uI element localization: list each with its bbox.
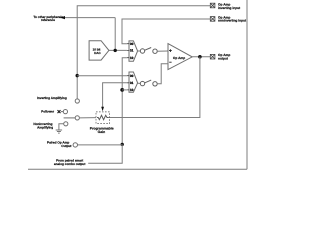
svg-text:From paired smart: From paired smart — [56, 159, 83, 163]
contact: Inverting Amplifying — [75, 99, 79, 103]
svg-text:output: output — [218, 57, 228, 61]
svg-text:Op Amp: Op Amp — [173, 57, 185, 61]
node: paired output junction — [121, 143, 124, 146]
contact: Paired Op Amp Output — [73, 143, 77, 147]
label: Noninverting Amplifying — [33, 122, 53, 129]
svg-text:10: 10 — [130, 89, 134, 93]
wire: mux U3 output — [138, 82, 141, 84]
mux U2 (noninverting input mux) — [127, 41, 138, 61]
switch SW3 pole — [64, 116, 96, 120]
op-amp U4 — [168, 44, 192, 70]
wire: mux U2 output — [138, 50, 141, 52]
svg-text:Gain: Gain — [98, 130, 106, 134]
svg-text:reference: reference — [41, 18, 55, 22]
switch SW1 — [140, 48, 157, 54]
mux U3 (inverting input mux) — [127, 72, 138, 92]
svg-text:01: 01 — [130, 49, 134, 53]
contact: Follower — [58, 110, 68, 114]
ground — [56, 130, 62, 133]
wire: to paired op amp output contact — [78, 144, 123, 146]
wire: junction to mux U3 pin 10 — [122, 89, 127, 91]
DAC U1 — [89, 41, 109, 60]
switch SW2 — [140, 80, 157, 86]
svg-text:10: 10 — [130, 56, 134, 60]
svg-text:Noninverting: Noninverting — [33, 122, 52, 126]
svg-text:10 bit: 10 bit — [93, 48, 101, 52]
resistor R1 programmable gain — [90, 112, 114, 134]
wire: SW2 to op-amp inverting input — [157, 64, 168, 84]
node: mux U3 pin 10 junction — [120, 88, 124, 92]
node: inverting line junction — [76, 74, 79, 77]
wire: inverting input line — [77, 6, 210, 99]
node: output junction — [198, 55, 202, 59]
wire: SW1 to op-amp noninverting input — [157, 50, 168, 52]
svg-text:inverting input: inverting input — [218, 7, 241, 11]
wire: junction to mux U3 pin 00 — [77, 75, 127, 77]
label: Paired Op Amp Output — [47, 141, 71, 148]
svg-text:Follower: Follower — [41, 110, 54, 114]
svg-text:01: 01 — [130, 82, 134, 86]
terminal: Op Amp output — [210, 54, 215, 59]
svg-text:Amplifying: Amplifying — [37, 126, 53, 130]
svg-text:Output: Output — [61, 144, 71, 148]
wire: feedback from output to gain resistor — [108, 57, 200, 118]
label: Op Amp output — [218, 53, 230, 60]
svg-text:00: 00 — [130, 74, 134, 78]
label: From paired smart analog combo output — [54, 159, 85, 166]
contact: Noninverting Amplifying — [59, 122, 68, 130]
wire: DAC output to mux U2 pin 01 — [109, 49, 127, 51]
svg-text:DAC: DAC — [94, 52, 101, 56]
terminal: Op Amp noninverting input — [210, 17, 215, 22]
svg-text:00: 00 — [130, 42, 134, 46]
label: Op Amp noninverting input — [218, 16, 246, 23]
wire: reference line to other peripherals — [60, 16, 115, 50]
label: Op Amp inverting input — [218, 3, 241, 10]
svg-text:analog combo output: analog combo output — [54, 163, 85, 167]
svg-text:noninverting input: noninverting input — [218, 19, 246, 23]
wire: gain tap to mux U3 pin 01 — [101, 83, 127, 111]
terminal: Op Amp inverting input — [210, 3, 215, 8]
svg-text:Inverting Amplifying: Inverting Amplifying — [37, 97, 67, 101]
label: To other peripherals reference — [33, 16, 63, 22]
wire: noninverting input line — [122, 19, 210, 44]
wire: from paired smart analog combo output — [88, 144, 122, 163]
node: DAC output — [114, 49, 117, 52]
wire: paired output net vertical — [122, 58, 127, 145]
wire: op-amp output — [192, 56, 210, 58]
